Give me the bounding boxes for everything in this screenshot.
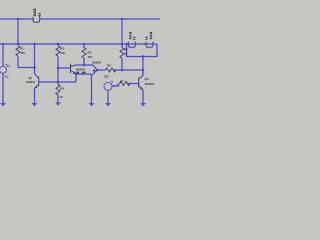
svg-text:AC: AC xyxy=(5,76,9,79)
svg-text:R7: R7 xyxy=(120,79,124,83)
svg-text:4k7: 4k7 xyxy=(88,55,93,59)
svg-text:1k: 1k xyxy=(60,95,64,99)
svg-text:1k: 1k xyxy=(124,52,128,56)
svg-text:R3: R3 xyxy=(60,47,64,51)
svg-text:47k: 47k xyxy=(20,51,25,55)
svg-text:Q3: Q3 xyxy=(145,77,149,81)
svg-text:SINE: SINE xyxy=(113,84,120,88)
svg-text:R2: R2 xyxy=(88,51,92,55)
svg-text:2N3904: 2N3904 xyxy=(26,80,36,84)
svg-text:R4: R4 xyxy=(60,87,64,91)
svg-text:100: 100 xyxy=(104,74,109,78)
svg-text:2N3904: 2N3904 xyxy=(145,82,155,86)
svg-text:R5: R5 xyxy=(107,64,111,68)
svg-text:R1: R1 xyxy=(20,47,24,51)
svg-text:2N3904: 2N3904 xyxy=(76,67,86,71)
svg-text:10k: 10k xyxy=(60,51,65,55)
svg-text:2N3904: 2N3904 xyxy=(92,60,102,64)
svg-text:Q2: Q2 xyxy=(29,76,33,80)
